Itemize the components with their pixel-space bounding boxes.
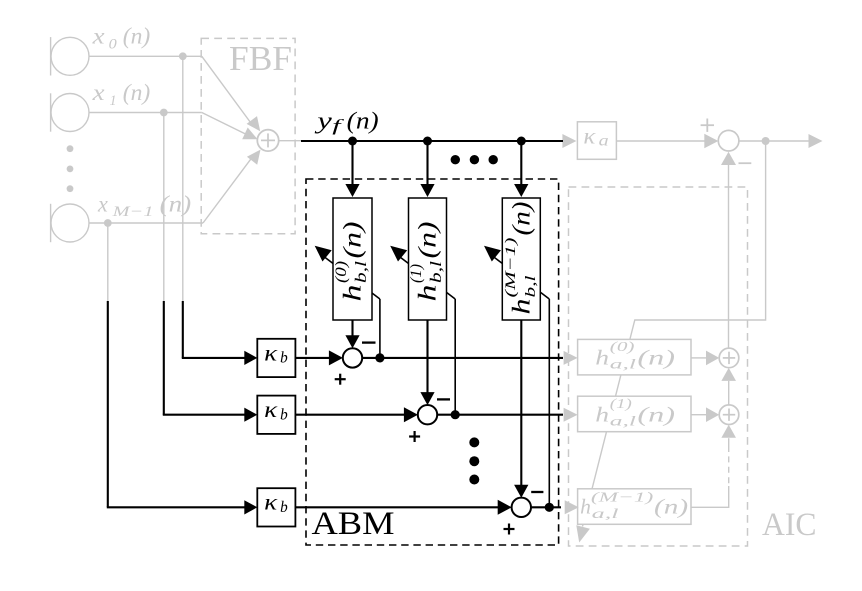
- wire FBF adder output: [279, 140, 301, 142]
- adaptive filter h_a,l^(1)(n) block: [578, 396, 691, 432]
- blocking filter h_b,l^(0)(n) block: [333, 198, 372, 320]
- wire x_0 diagonal into FBF adder: [202, 56, 252, 124]
- plus sign at summer row M-1: [504, 528, 515, 530]
- svg-text:yf(n): yf(n): [315, 108, 379, 135]
- wire x_1(n) to FBF: [89, 112, 202, 114]
- wire x_0(n) to FBF: [89, 55, 202, 57]
- arrowhead into summer from above row 0: [345, 335, 359, 348]
- wire summer output row 0: [362, 357, 563, 359]
- horizontal ellipsis dots on y_f line: [451, 155, 460, 164]
- minus sign at output subtractor: [739, 162, 752, 164]
- arrowhead into h_a M-1 block: [565, 500, 579, 514]
- adaptation diagonal wire through h_b 1: [398, 255, 456, 299]
- node on x_0 line: [179, 52, 187, 60]
- vertical dots between microphone inputs: [67, 145, 74, 152]
- arrowhead into adder A2 from below: [721, 425, 736, 438]
- minus sign at summer row 0: [362, 341, 376, 343]
- minus sign at summer row M-1: [531, 491, 543, 493]
- adaptation diagonal wire through h_b 0: [322, 255, 380, 299]
- AIC adder A2 circle: [719, 405, 739, 425]
- arrowhead into summer from above row 1: [420, 392, 434, 405]
- blocking filter h_b,l^(M-1)(n) block: [502, 198, 540, 320]
- output subtractor circle: [718, 130, 739, 151]
- adaptation arrowhead h_b 0: [315, 246, 332, 262]
- vertical gray feed wire from x_M-1 node: [107, 223, 109, 302]
- kappa_a gain block: [577, 122, 616, 160]
- wire subtractor to output: [739, 140, 809, 142]
- plus sign at summer row 0: [335, 378, 346, 380]
- arrowhead into adder A2: [706, 407, 719, 422]
- error feedback riser wire row 1: [454, 299, 456, 415]
- arrowhead into h_a 0 block: [564, 351, 578, 365]
- arrowhead x_1 into FBF adder: [242, 128, 257, 140]
- wire x_1 diagonal into FBF adder: [202, 113, 246, 135]
- error feedback node row M-1: [545, 503, 554, 512]
- arrowhead into summer row 0: [329, 350, 343, 365]
- wire kappa_a to output subtractor: [616, 140, 706, 142]
- wire summer output row M-1: [531, 506, 561, 508]
- wire below adder A2 solid part: [728, 438, 730, 446]
- vertical black feed wire row M-1: [107, 301, 109, 507]
- wire feed into kappa_b row 0: [182, 357, 247, 359]
- vertical gray feed wire from x_1 node: [163, 113, 165, 303]
- arrowhead into kappa_b row M-1: [244, 500, 257, 514]
- FBF dashed block: [201, 38, 295, 233]
- error feedback riser wire row M-1: [548, 299, 550, 507]
- blocking filter h_b,l^(1)(n) block: [409, 198, 447, 320]
- wire kappa_b to summer row 1: [295, 414, 407, 416]
- microphone input x_M-1(n) sensor symbol: [50, 204, 52, 242]
- arrowhead into adder A1: [706, 351, 719, 366]
- node on y_f line 2: [423, 137, 432, 146]
- FBF summing adder circle: [257, 130, 278, 151]
- AIC dashed block: [569, 187, 748, 546]
- adaptation arrowhead h_b 1: [390, 246, 407, 262]
- wire h_a M-1 output up the sum column: [691, 486, 729, 507]
- arrowhead into summer row M-1: [498, 500, 512, 515]
- microphone input x_0(n) sensor symbol: [50, 37, 52, 75]
- summer circle row 1: [418, 405, 437, 424]
- wire x_M-1(n) to FBF: [89, 222, 204, 224]
- node on x_M-1 line: [104, 219, 112, 227]
- output node: [762, 137, 770, 145]
- wire h_a 0 to adder A1: [691, 357, 706, 359]
- node on y_f line 3: [517, 137, 526, 146]
- plus sign at output subtractor: [701, 124, 714, 126]
- wire y_f into h_b 1: [426, 141, 428, 187]
- wire kappa_b to summer row 0: [295, 357, 332, 359]
- error feedback node row 0: [375, 353, 384, 362]
- arrowhead into h_b M-1: [514, 184, 528, 197]
- feedback wire from output node through h_a filters: [583, 141, 766, 527]
- adaptation arrowhead below h_a M-1 block: [576, 525, 590, 542]
- svg-text:AIC: AIC: [762, 507, 817, 543]
- svg-text:ABM: ABM: [312, 506, 395, 542]
- arrowhead into kappa_b row 1: [244, 408, 257, 422]
- dashed continuation wire in AIC sum column: [728, 446, 730, 486]
- wire h_a 1 to adder A2: [691, 414, 706, 416]
- wire adder A2 to adder A1: [728, 381, 730, 405]
- wire feed into kappa_b row 1: [163, 414, 247, 416]
- wire summer output row 1: [437, 414, 563, 416]
- wire h_b output into summer row M-1: [520, 320, 522, 487]
- summer circle row M-1: [512, 498, 531, 517]
- arrowhead x_0 into FBF adder: [247, 116, 261, 131]
- AIC adder A1 circle: [719, 348, 739, 368]
- error feedback riser wire row 0: [379, 299, 381, 358]
- svg-text:FBF: FBF: [229, 39, 292, 78]
- arrowhead into subtractor from below: [721, 152, 736, 165]
- wire y_f into h_b 0: [351, 141, 353, 187]
- arrowhead into h_b 0: [345, 184, 359, 197]
- arrowhead into summer row 1: [404, 407, 418, 422]
- adaptation diagonal wire through h_b M-1: [491, 255, 549, 299]
- adaptation arrowhead h_b M-1: [484, 246, 501, 262]
- vertical gray feed wire from x_0 node: [182, 56, 184, 302]
- wire feed into kappa_b row M-1: [107, 506, 247, 508]
- wire y_f(n) main line: [301, 140, 563, 142]
- kappa_b gain block row M-1: [257, 488, 295, 526]
- adaptive filter h_a,l^(M-1)(n) block: [578, 489, 691, 525]
- wire x_M-1 diagonal into FBF adder: [203, 157, 253, 223]
- arrowhead into adder A1 from below: [721, 368, 736, 381]
- arrowhead into summer from above row M-1: [514, 485, 528, 498]
- wire AIC sum column up to subtractor: [728, 165, 730, 348]
- wire y_f into h_b M-1: [520, 141, 522, 187]
- microphone input x_1(n) sensor symbol: [50, 93, 52, 131]
- kappa_b gain block row 1: [257, 396, 295, 434]
- arrowhead into kappa_a: [562, 134, 576, 148]
- plus sign at summer row 1: [409, 435, 420, 437]
- arrowhead x_M-1 into FBF adder: [247, 150, 261, 165]
- node on x_1 line: [160, 109, 168, 117]
- arrowhead into kappa_b row 0: [244, 351, 257, 365]
- arrowhead into h_b 1: [420, 184, 434, 197]
- wire h_b output into summer row 0: [351, 320, 353, 337]
- vertical black feed wire row 1: [163, 301, 165, 415]
- minus sign at summer row 1: [437, 398, 450, 400]
- vertical ellipsis dots inside ABM: [469, 437, 479, 447]
- wire kappa_b to summer row M-1: [295, 506, 500, 508]
- wire h_b output into summer row 1: [426, 320, 428, 394]
- error feedback node row 1: [451, 410, 460, 419]
- kappa_b gain block row 0: [257, 339, 295, 377]
- node on y_f line 1: [348, 137, 357, 146]
- output arrowhead: [809, 134, 823, 148]
- arrowhead into output subtractor: [704, 134, 718, 148]
- vertical black feed wire row 0: [182, 301, 184, 358]
- ABM dashed block: [306, 179, 559, 545]
- arrowhead into h_a 1 block: [564, 408, 578, 422]
- summer circle row 0: [343, 348, 362, 367]
- adaptive filter h_a,l^(0)(n) block: [578, 339, 691, 375]
